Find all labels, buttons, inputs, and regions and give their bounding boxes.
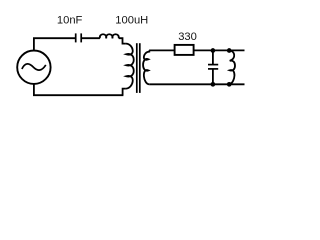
transformer T1 core line left bbox=[136, 43, 138, 93]
svg-text:10nF: 10nF bbox=[57, 14, 83, 26]
junction node bottom-left bbox=[211, 82, 216, 87]
svg-text:330: 330 bbox=[178, 31, 197, 43]
transformer T1 core line right bbox=[139, 43, 141, 93]
wire inductor to transformer primary step bbox=[119, 38, 126, 43]
junction node top-right bbox=[227, 48, 232, 53]
AC source V1 circle bbox=[17, 50, 50, 83]
capacitor C2 top lead bbox=[212, 50, 214, 64]
resistor R1 330 body bbox=[175, 45, 194, 55]
wire capacitor to inductor bbox=[82, 37, 100, 39]
capacitor C2 bottom lead bbox=[212, 69, 214, 84]
svg-text:100uH: 100uH bbox=[115, 15, 148, 27]
wire source bottom stub and bottom rail bbox=[34, 84, 124, 95]
transformer T1 primary winding bbox=[126, 44, 134, 89]
AC source sine wave bbox=[22, 64, 46, 70]
wire transformer primary bottom curve bbox=[123, 89, 126, 96]
wire secondary top to resistor bbox=[149, 49, 175, 51]
inductor L1 100uH bbox=[100, 34, 119, 38]
wire secondary bottom rail bbox=[149, 83, 244, 85]
capacitor C1 right plate bbox=[80, 33, 82, 42]
junction node bottom-right bbox=[227, 82, 232, 87]
capacitor C1 left plate bbox=[75, 33, 77, 42]
inductor L2 output coil bbox=[230, 51, 235, 84]
capacitor C2 top plate bbox=[208, 64, 218, 66]
wire top-left rail from source to capacitor bbox=[34, 38, 75, 50]
capacitor C2 bottom plate bbox=[208, 68, 218, 70]
junction node top-left bbox=[211, 48, 216, 53]
transformer T1 secondary winding bbox=[143, 50, 149, 84]
wire resistor to right end bbox=[194, 49, 245, 51]
